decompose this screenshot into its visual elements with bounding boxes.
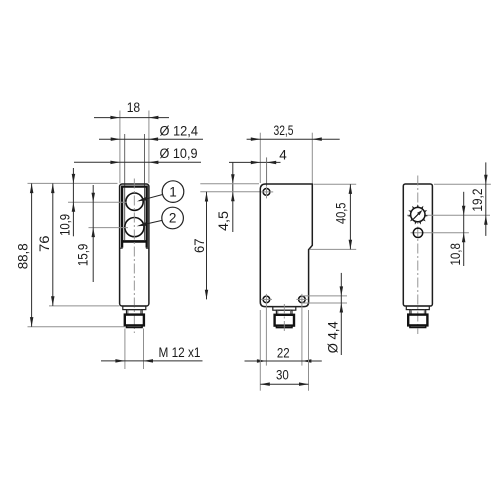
side view: connector centerline [283,304,285,332]
svg-text:67: 67 [192,239,207,254]
svg-text:Ø 4,4: Ø 4,4 [326,321,341,353]
svg-text:32,5: 32,5 [274,123,294,138]
dimension 10,9 (lens 1 offset) [72,168,74,236]
svg-text:40,5: 40,5 [333,203,348,225]
side view: bottom-right mounting hole [299,296,306,303]
gear center reference line [407,214,490,216]
30 extension lines [259,310,261,391]
rear view: connector flange [406,306,429,310]
potentiometer slot arrow [413,212,420,219]
Ø 4,4 hole edge references [302,295,347,297]
svg-text:Ø 12,4: Ø 12,4 [160,123,199,138]
svg-text:18: 18 [127,100,141,115]
svg-text:Ø 10,9: Ø 10,9 [160,146,198,161]
dimension Ø 12,4 [99,138,203,140]
reference line: lens 2 center [89,227,129,229]
40,5 reference lines [314,183,357,185]
22 extension line right [301,294,303,366]
rear view: body outline [403,184,432,306]
front view: connector neck [127,310,143,315]
front view: shoulder ticks [120,247,123,249]
dimension Ø 10,9 [74,161,201,163]
side view: top reference line [200,183,259,185]
M12 thread extension lines [124,329,126,370]
svg-text:88,8: 88,8 [16,243,31,269]
rear view: vertical centerline [417,176,419,335]
front view: sensor body outline [120,184,149,306]
lens circle 2 (receiver) [125,218,144,237]
shared top reference line [28,182,118,184]
rear view: connector thread block [408,315,427,326]
dimension 32,5 [247,138,340,140]
front view: connector diameter extension lines [124,134,126,186]
side view: bottom-left mounting hole [263,296,270,303]
svg-text:M 12 x1: M 12 x1 [159,345,201,360]
side view: connector flange [273,307,296,311]
LED center reference line [411,232,469,234]
dimension 30 [260,383,308,385]
svg-text:4: 4 [279,147,287,162]
svg-text:15,9: 15,9 [76,244,91,267]
leader line to lens 2 [140,220,162,225]
svg-text:1: 1 [169,184,177,199]
svg-text:22: 22 [277,345,290,360]
dimension 10,8 [463,192,465,266]
hole centerline extension (4) [266,157,268,186]
dimension 4,5 (hole y-offset) [232,162,234,232]
dimension 88,8 [31,183,33,326]
front view: connector thread block [125,315,144,326]
dimension 22 [245,360,322,362]
dimension 67 (hole spacing) [206,192,208,300]
reference line: lens 1 center [68,201,127,203]
svg-text:19,2: 19,2 [470,189,485,212]
side view: housing outline [260,184,312,307]
leader line to lens 1 [139,195,163,201]
rear view: connector end cap [410,325,426,327]
dimension 19,2 [485,162,487,236]
adjustment potentiometer gear [411,207,425,221]
dimension 15,9 (lens spacing) [92,185,94,282]
dimension M 12 x1 [101,360,203,362]
rear view: connector neck [410,310,426,315]
rear view: top reference line [434,183,491,185]
callout circle 2 [162,207,184,229]
reference line: connector end (88,8) [28,326,127,328]
front view: body extension lines [119,111,121,184]
lens circle 1 (emitter) [126,193,143,210]
side view: width extension lines [259,133,261,183]
svg-text:30: 30 [276,368,289,383]
dimension 4 (hole x-offset) [229,161,281,163]
LED indicator [413,228,422,237]
22 extension line left [265,294,267,366]
dimension 18 [94,117,169,119]
svg-text:10,9: 10,9 [58,214,73,236]
svg-text:10,8: 10,8 [448,243,463,265]
front view: vertical centerline [133,179,135,334]
dimension Ø 4,4 [340,273,342,355]
front view: M12 connector flange [123,306,146,310]
side view: connector end cap [276,326,292,328]
dimension 40,5 [349,184,351,249]
reference line: body bottom (76) [49,305,120,307]
front view: connector end cap [127,325,143,327]
callout circle 1 [162,181,184,203]
side view: top hole center reference [200,191,261,193]
svg-text:4,5: 4,5 [216,211,231,231]
svg-text:2: 2 [169,211,177,226]
svg-text:76: 76 [37,236,52,253]
dimension 76 [52,183,54,306]
side view: connector thread block [275,315,294,326]
side view: connector neck [276,310,292,315]
side view: top mounting hole [263,189,270,196]
front view: lens window frame [122,187,147,248]
